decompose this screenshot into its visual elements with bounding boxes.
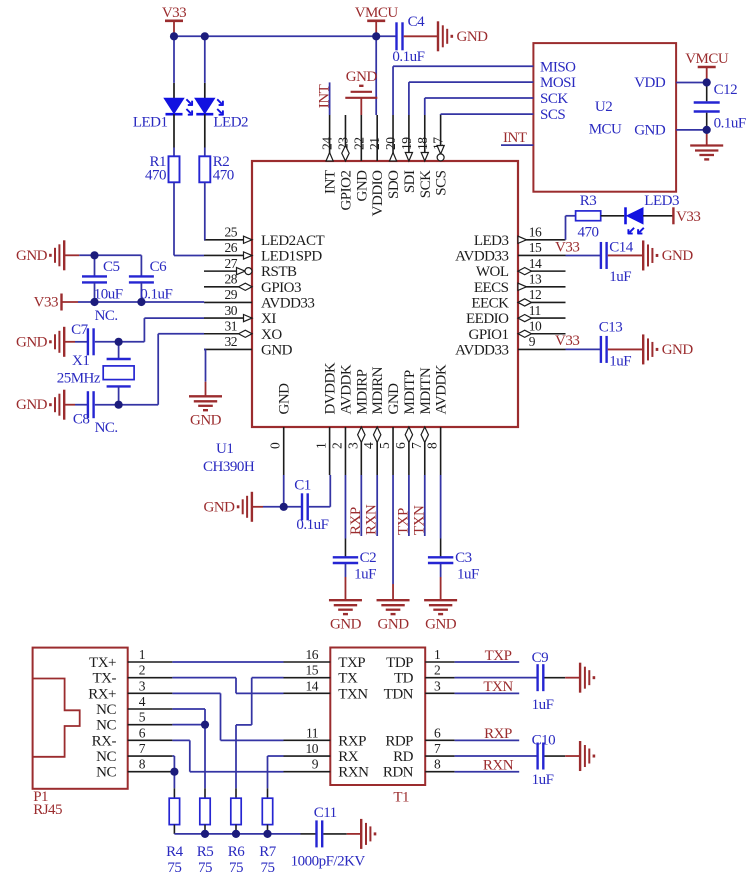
svg-text:25MHz: 25MHz [57,370,101,386]
svg-text:C3: C3 [455,550,472,566]
svg-text:AVDD33: AVDD33 [455,342,508,358]
svg-text:RXN: RXN [483,758,514,774]
svg-text:GND: GND [634,123,666,139]
svg-text:1000pF/2KV: 1000pF/2KV [291,854,366,870]
svg-text:C5: C5 [103,259,120,275]
svg-text:RJ45: RJ45 [33,802,62,818]
svg-text:26: 26 [225,240,238,255]
svg-text:3: 3 [345,442,360,449]
svg-text:GPIO1: GPIO1 [468,327,508,343]
svg-text:20: 20 [383,137,398,150]
svg-text:0: 0 [268,442,283,449]
svg-text:C12: C12 [714,82,738,98]
svg-text:1uF: 1uF [457,567,479,583]
svg-text:GND: GND [277,383,293,415]
svg-text:RD: RD [393,749,414,765]
svg-text:AVDDK: AVDDK [338,364,354,414]
svg-text:LED1: LED1 [133,114,168,130]
svg-text:13: 13 [529,271,542,286]
svg-text:LED3: LED3 [474,233,509,249]
svg-text:8: 8 [425,442,440,449]
svg-text:EEDIO: EEDIO [466,311,509,327]
svg-text:0.1uF: 0.1uF [296,517,328,533]
svg-text:MDIRN: MDIRN [370,366,386,414]
svg-text:8: 8 [139,757,146,772]
svg-text:SCK: SCK [418,170,434,198]
svg-text:RDP: RDP [385,733,413,749]
svg-text:NC: NC [96,718,116,734]
svg-text:1uF: 1uF [532,772,554,788]
svg-text:7: 7 [409,442,424,449]
svg-text:11: 11 [529,303,541,318]
svg-text:R4: R4 [166,844,184,860]
svg-text:LED3: LED3 [644,193,679,209]
svg-text:14: 14 [306,678,319,693]
svg-text:470: 470 [213,167,234,183]
svg-text:AVDD33: AVDD33 [455,248,508,264]
svg-text:EECS: EECS [474,280,509,296]
svg-text:6: 6 [393,442,408,449]
svg-text:INT: INT [317,84,333,108]
svg-text:MDITP: MDITP [402,370,418,414]
svg-text:WOL: WOL [476,264,509,280]
svg-text:LED1SPD: LED1SPD [261,248,322,264]
svg-text:10uF: 10uF [94,287,123,303]
svg-text:TXN: TXN [483,679,513,695]
svg-text:GND: GND [662,248,694,264]
svg-text:X1: X1 [72,353,89,369]
svg-text:24: 24 [320,137,335,150]
svg-text:RXP: RXP [348,507,364,535]
svg-text:0.1uF: 0.1uF [392,49,424,65]
svg-text:5: 5 [139,710,146,725]
svg-text:TD: TD [394,671,414,687]
svg-text:25: 25 [225,225,238,240]
svg-text:28: 28 [225,271,238,286]
svg-text:R5: R5 [197,844,214,860]
svg-text:INT: INT [323,170,339,194]
svg-text:GND: GND [204,499,236,515]
svg-text:TXN: TXN [411,505,427,535]
svg-text:NC: NC [96,702,116,718]
svg-text:5: 5 [377,442,392,449]
svg-text:GND: GND [16,397,48,413]
svg-text:GND: GND [16,248,48,264]
svg-text:2: 2 [434,663,440,678]
svg-text:2: 2 [139,663,145,678]
svg-text:VDDIO: VDDIO [370,170,386,216]
svg-text:3: 3 [139,678,146,693]
svg-text:C10: C10 [532,733,556,749]
svg-text:18: 18 [415,137,430,150]
svg-text:C11: C11 [314,805,337,821]
svg-text:RXP: RXP [484,726,512,742]
svg-text:3: 3 [434,678,441,693]
svg-text:MOSI: MOSI [540,75,576,91]
svg-text:NC.: NC. [95,308,118,324]
svg-text:VMCU: VMCU [355,5,399,21]
svg-text:30: 30 [225,303,238,318]
svg-text:RX+: RX+ [88,686,116,702]
svg-text:16: 16 [306,647,319,662]
svg-text:TXP: TXP [395,508,411,535]
svg-text:4: 4 [139,694,146,709]
svg-text:LED2: LED2 [213,114,248,130]
svg-text:V33: V33 [555,333,579,349]
svg-text:V33: V33 [555,240,579,256]
svg-text:470: 470 [578,225,599,241]
svg-text:75: 75 [229,860,243,876]
svg-text:6: 6 [434,725,441,740]
svg-text:0.1uF: 0.1uF [140,287,172,303]
svg-text:GND: GND [378,616,410,632]
svg-text:1uF: 1uF [354,567,376,583]
svg-text:C14: C14 [609,240,634,256]
svg-text:11: 11 [306,725,318,740]
svg-text:AVDDK: AVDDK [434,364,450,414]
svg-text:VDD: VDD [634,75,666,91]
svg-text:12: 12 [529,287,542,302]
svg-text:10: 10 [306,741,319,756]
svg-text:GND: GND [330,616,362,632]
svg-text:GPIO3: GPIO3 [261,280,301,296]
svg-text:C8: C8 [73,411,90,427]
svg-text:SDI: SDI [402,170,418,193]
svg-text:7: 7 [434,741,441,756]
svg-text:75: 75 [198,860,212,876]
svg-text:RX: RX [338,749,359,765]
svg-text:SDO: SDO [386,170,402,199]
svg-text:21: 21 [367,138,382,151]
svg-text:GND: GND [386,383,402,415]
svg-text:19: 19 [399,137,414,150]
svg-text:GND: GND [662,342,694,358]
svg-text:27: 27 [225,256,238,271]
svg-text:MISO: MISO [540,59,576,75]
svg-text:TX+: TX+ [89,655,116,671]
svg-text:RXN: RXN [364,504,380,535]
svg-text:NC.: NC. [95,420,118,436]
svg-text:AVDD33: AVDD33 [261,295,314,311]
svg-text:C9: C9 [532,650,549,666]
svg-text:NC: NC [96,765,116,781]
svg-text:SCK: SCK [540,91,568,107]
svg-text:R3: R3 [580,193,597,209]
svg-text:GND: GND [425,616,457,632]
svg-text:VMCU: VMCU [685,51,729,67]
svg-text:TX-: TX- [93,671,117,687]
svg-text:29: 29 [225,287,238,302]
svg-text:C2: C2 [360,550,377,566]
svg-text:XO: XO [261,327,282,343]
svg-text:1: 1 [139,647,145,662]
svg-text:GND: GND [346,69,378,85]
svg-text:EECK: EECK [471,295,509,311]
svg-text:MCU: MCU [589,122,622,138]
svg-text:SCS: SCS [540,107,565,123]
svg-text:TX: TX [338,671,358,687]
svg-text:R6: R6 [228,844,246,860]
svg-text:1uF: 1uF [532,697,554,713]
svg-text:1uF: 1uF [609,269,631,285]
svg-text:TDP: TDP [386,655,413,671]
svg-text:C7: C7 [71,322,89,338]
svg-text:10: 10 [529,318,542,333]
svg-text:V33: V33 [676,209,700,225]
svg-text:INT: INT [503,130,527,146]
svg-text:TDN: TDN [384,686,414,702]
svg-text:GND: GND [354,170,370,202]
svg-text:1: 1 [314,443,329,449]
svg-text:CH390H: CH390H [203,459,255,475]
svg-text:470: 470 [145,167,166,183]
svg-text:SCS: SCS [434,170,450,195]
svg-text:T1: T1 [393,790,409,806]
svg-text:MDIRP: MDIRP [354,369,370,414]
svg-text:GND: GND [261,342,293,358]
svg-text:GND: GND [16,334,48,350]
svg-text:9: 9 [312,757,319,772]
svg-text:GND: GND [457,29,489,45]
svg-text:NC: NC [96,749,116,765]
svg-text:TXN: TXN [338,686,368,702]
svg-text:TXP: TXP [485,648,512,664]
svg-text:32: 32 [225,334,238,349]
svg-text:7: 7 [139,741,146,756]
svg-text:RSTB: RSTB [261,264,297,280]
svg-text:C4: C4 [408,14,426,30]
svg-text:V33: V33 [34,295,58,311]
svg-text:U1: U1 [216,441,233,457]
svg-text:C1: C1 [294,477,311,493]
svg-text:31: 31 [225,318,238,333]
svg-text:RXP: RXP [338,733,366,749]
svg-text:2: 2 [329,443,344,449]
svg-text:4: 4 [361,442,376,449]
svg-text:0.1uF: 0.1uF [714,116,746,132]
svg-text:GPIO2: GPIO2 [338,171,354,211]
svg-text:6: 6 [139,725,146,740]
svg-text:16: 16 [529,225,542,240]
svg-text:TXP: TXP [338,655,365,671]
svg-text:15: 15 [306,663,319,678]
svg-text:DVDDK: DVDDK [323,362,339,414]
svg-text:R7: R7 [259,844,277,860]
svg-text:C6: C6 [150,259,168,275]
svg-text:RX-: RX- [92,733,117,749]
svg-text:15: 15 [529,240,542,255]
svg-text:23: 23 [335,137,350,150]
svg-text:V33: V33 [162,5,186,21]
svg-text:8: 8 [434,757,441,772]
svg-text:22: 22 [351,138,366,151]
svg-text:RDN: RDN [383,765,414,781]
svg-text:9: 9 [529,334,536,349]
svg-text:1: 1 [434,647,440,662]
svg-text:U2: U2 [595,99,612,115]
svg-text:XI: XI [261,311,276,327]
svg-text:14: 14 [529,256,542,271]
svg-text:MDITN: MDITN [418,367,434,414]
svg-text:GND: GND [190,413,222,429]
svg-text:LED2ACT: LED2ACT [261,233,324,249]
svg-text:75: 75 [167,860,181,876]
svg-text:75: 75 [261,860,275,876]
svg-text:C13: C13 [599,320,623,336]
svg-text:1uF: 1uF [609,354,631,370]
svg-text:RXN: RXN [338,765,369,781]
